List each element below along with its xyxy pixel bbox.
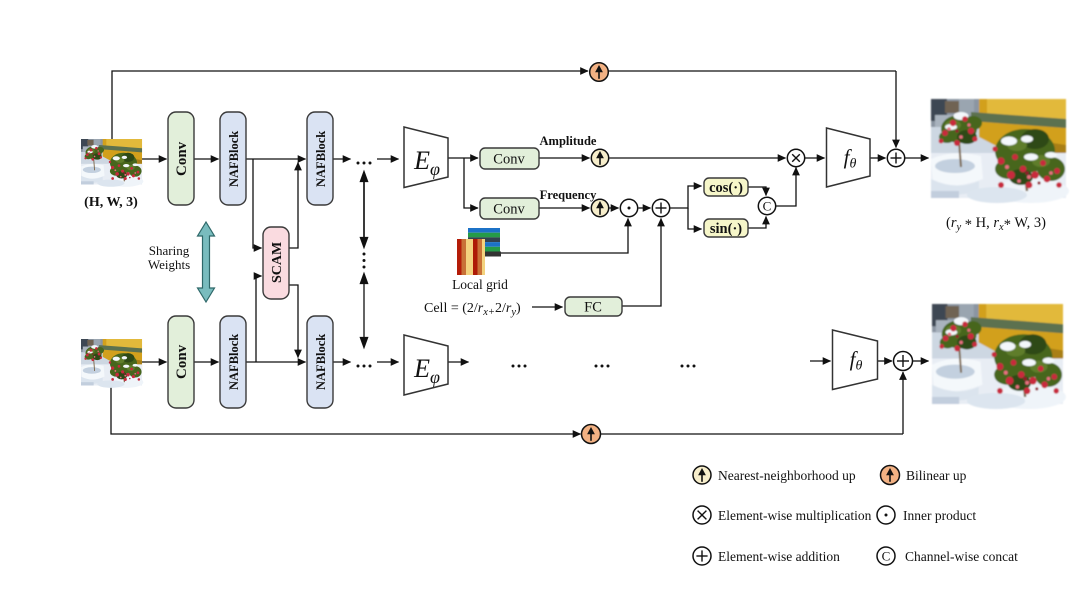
- svg-text:SCAM: SCAM: [270, 242, 285, 283]
- svg-text:Sharing: Sharing: [149, 243, 190, 258]
- svg-text:NAFBlock: NAFBlock: [227, 334, 241, 390]
- svg-text:Element-wise multiplication: Element-wise multiplication: [718, 508, 872, 523]
- svg-text:Conv: Conv: [493, 152, 525, 168]
- svg-text:(ry * H, rx* W, 3): (ry * H, rx* W, 3): [946, 215, 1046, 233]
- svg-text:Frequency: Frequency: [540, 188, 597, 202]
- svg-text:NAFBlock: NAFBlock: [314, 131, 328, 187]
- svg-text:Conv: Conv: [174, 344, 190, 379]
- svg-text:Conv: Conv: [493, 202, 525, 218]
- svg-text:Cell = (2/rx+2/ry): Cell = (2/rx+2/ry): [424, 301, 521, 318]
- svg-text:Bilinear up: Bilinear up: [906, 468, 967, 483]
- svg-text:NAFBlock: NAFBlock: [227, 131, 241, 187]
- svg-text:(H, W, 3): (H, W, 3): [84, 195, 138, 210]
- svg-text:Weights: Weights: [148, 257, 190, 272]
- svg-text:Amplitude: Amplitude: [540, 134, 597, 148]
- svg-text:Nearest-neighborhood up: Nearest-neighborhood up: [718, 468, 856, 483]
- svg-text:C: C: [882, 549, 891, 564]
- svg-text:Local grid: Local grid: [452, 277, 508, 292]
- svg-text:Conv: Conv: [174, 141, 190, 176]
- svg-text:C: C: [763, 199, 772, 214]
- svg-text:cos(·): cos(·): [709, 180, 743, 196]
- svg-text:Element-wise addition: Element-wise addition: [718, 549, 840, 564]
- svg-text:FC: FC: [584, 300, 602, 316]
- svg-text:sin(·): sin(·): [710, 221, 742, 237]
- svg-text:Inner product: Inner product: [903, 508, 976, 523]
- svg-text:NAFBlock: NAFBlock: [314, 334, 328, 390]
- svg-text:Channel-wise concat: Channel-wise concat: [905, 549, 1018, 564]
